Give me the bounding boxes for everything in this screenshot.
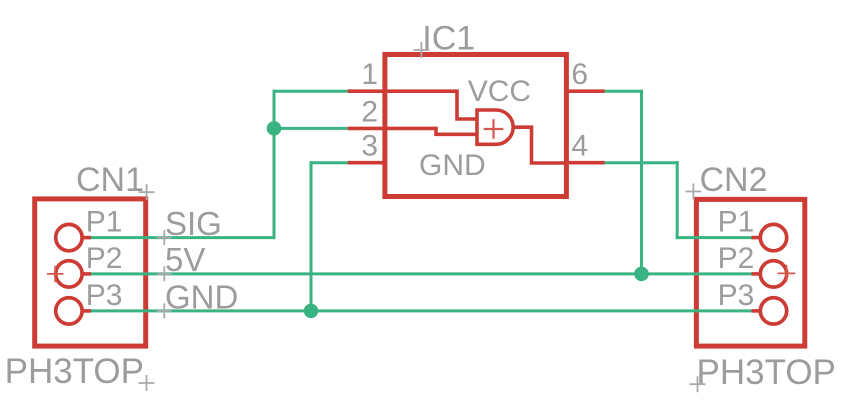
- internal wire pin1 to gate input A: [385, 91, 478, 119]
- label CN2: [700, 161, 768, 199]
- pad P2 of CN2: [752, 261, 787, 287]
- junction GND: [304, 304, 319, 319]
- pin number 4: [571, 130, 588, 163]
- pin 6 stub: [566, 89, 604, 93]
- connector CN1 body: [35, 199, 146, 346]
- svg-text:PH3TOP: PH3TOP: [697, 353, 836, 392]
- pad P1 of CN2: [752, 224, 787, 250]
- pin 1 stub: [348, 89, 385, 93]
- pad P3 of CN1: [56, 298, 91, 324]
- svg-text:GND: GND: [165, 278, 238, 315]
- text anchor cross PH3TOP right: [690, 376, 706, 392]
- label CN1: [76, 161, 144, 199]
- pad P2 of CN1: [56, 261, 91, 287]
- text anchor cross PH3TOP left: [139, 375, 155, 391]
- svg-text:P2: P2: [86, 242, 123, 275]
- svg-text:CN1: CN1: [76, 161, 144, 199]
- wire SIG vertical riser: [273, 90, 276, 239]
- wire 5V vertical riser: [640, 90, 643, 274]
- svg-text:SIG: SIG: [165, 205, 222, 242]
- net anchor cross SIG: [157, 230, 172, 245]
- label IC1: [422, 20, 475, 58]
- svg-text:GND: GND: [419, 149, 486, 182]
- pin name P3 of CN1: [86, 279, 123, 312]
- pad P1 of CN1: [56, 224, 91, 250]
- svg-text:5V: 5V: [165, 241, 205, 278]
- wire GND horizontal CN1 P3 to CN2 P3: [91, 309, 752, 312]
- wire SIG horizontal from CN1 P1: [91, 236, 276, 239]
- svg-text:P3: P3: [718, 279, 755, 312]
- svg-text:IC1: IC1: [422, 20, 475, 58]
- net label SIG: [165, 205, 222, 242]
- pin name GND: [419, 149, 486, 182]
- svg-text:P2: P2: [718, 242, 755, 275]
- text anchor cross CN2: [685, 184, 701, 200]
- pin name P2 of CN2: [718, 242, 755, 275]
- pin name P3 of CN2: [718, 279, 755, 312]
- junction SIG: [267, 121, 282, 136]
- net label 5V: [165, 241, 205, 278]
- pin number 1: [361, 58, 378, 91]
- text anchor cross CN1: [139, 184, 155, 200]
- wire OUT vertical drop: [676, 161, 679, 239]
- svg-text:1: 1: [361, 58, 378, 91]
- svg-text:CN2: CN2: [700, 161, 768, 199]
- svg-text:6: 6: [571, 58, 588, 91]
- svg-text:PH3TOP: PH3TOP: [5, 352, 144, 391]
- pin number 6: [571, 58, 588, 91]
- wire GND vertical riser: [310, 161, 313, 311]
- and-gate G1: [477, 110, 513, 144]
- net label GND: [165, 278, 238, 315]
- wire SIG to pin 1: [273, 90, 348, 93]
- svg-text:VCC: VCC: [468, 75, 531, 108]
- junction 5V: [634, 267, 649, 282]
- pin 4 stub: [566, 161, 604, 165]
- connector CN2 body: [696, 199, 804, 346]
- svg-text:4: 4: [571, 130, 588, 163]
- origin cross CN2: [778, 265, 796, 282]
- origin cross CN1: [47, 266, 63, 282]
- svg-text:P1: P1: [86, 206, 123, 239]
- pin name P1 of CN1: [86, 206, 123, 239]
- wire OUT from pin 4: [605, 161, 679, 164]
- gate origin cross: [484, 119, 504, 139]
- wire GND to pin 3: [310, 161, 348, 164]
- pin 3 stub: [348, 161, 385, 165]
- internal wire pin2 to gate input B: [385, 128, 478, 134]
- svg-text:3: 3: [361, 130, 378, 163]
- pin name P2 of CN1: [86, 242, 123, 275]
- pin name VCC: [468, 75, 531, 108]
- pin name P1 of CN2: [718, 206, 755, 239]
- svg-text:P1: P1: [718, 206, 755, 239]
- pin number 3: [361, 130, 378, 163]
- label PH3TOP left: [5, 352, 144, 391]
- label PH3TOP right: [697, 353, 836, 392]
- svg-text:2: 2: [361, 95, 378, 128]
- svg-text:P3: P3: [86, 279, 123, 312]
- wire OUT to CN2 P1: [676, 236, 752, 239]
- text anchor cross IC1: [413, 42, 429, 58]
- net anchor cross 5V: [157, 266, 172, 281]
- net anchor cross GND: [157, 303, 172, 318]
- pin number 2: [361, 95, 378, 128]
- internal wire gate output to pin 4: [511, 127, 566, 163]
- pad P3 of CN2: [752, 298, 787, 324]
- wire SIG to pin 2: [274, 127, 348, 130]
- wire 5V horizontal CN1 P2 to CN2 P2: [91, 272, 752, 275]
- pin 2 stub: [348, 127, 385, 131]
- wire 5V to pin 6: [605, 90, 644, 93]
- IC U1 body: [385, 55, 567, 197]
